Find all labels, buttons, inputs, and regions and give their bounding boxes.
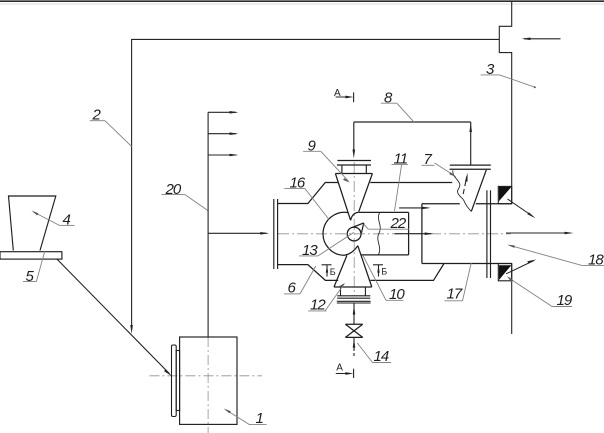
air arrow 1 bbox=[208, 111, 238, 114]
fan volute scroll bbox=[323, 212, 358, 255]
funnel 12 cone bbox=[334, 246, 372, 287]
centerline horizontal motor bbox=[149, 375, 262, 377]
funnel 9 flange bbox=[337, 161, 371, 174]
vertical feed line below funnel 12 with up arrow bbox=[353, 303, 355, 324]
label 22 bbox=[364, 215, 409, 232]
svg-text:17: 17 bbox=[447, 286, 463, 303]
motor 1 body bbox=[180, 337, 237, 424]
inlet arrow to machine bbox=[208, 232, 269, 235]
label 17 bbox=[444, 263, 471, 303]
lower wedge box 19 bbox=[498, 264, 511, 281]
impeller small circle 13 bbox=[347, 227, 361, 241]
volute top spiral arc to outlet duct bbox=[351, 212, 359, 220]
valve 14 bbox=[345, 324, 362, 337]
label 5 bbox=[23, 251, 45, 286]
funnel 7 slanted cone with break line bbox=[471, 170, 486, 212]
box 17 separator bbox=[422, 204, 512, 264]
line 8 right vertical from funnel 7 bbox=[470, 122, 472, 165]
svg-text:16: 16 bbox=[290, 175, 306, 192]
pipe 3 vertical with notch bbox=[499, 1, 511, 334]
air arrow 2 bbox=[208, 132, 238, 135]
outlet flange double lines bbox=[487, 190, 491, 278]
label 19 bbox=[507, 276, 573, 309]
label 1 bbox=[224, 409, 267, 427]
top border line bbox=[0, 0, 604, 2]
motor shaft flange inner bbox=[176, 351, 179, 411]
outlet arrow main bbox=[506, 232, 574, 235]
label 8 bbox=[381, 89, 414, 122]
label 3 bbox=[481, 61, 536, 88]
svg-text:20: 20 bbox=[165, 181, 182, 198]
svg-text:A: A bbox=[336, 362, 343, 373]
label 6 bbox=[284, 266, 316, 296]
line 2 recirculation pipe bbox=[132, 39, 500, 326]
label 16 bbox=[284, 175, 329, 220]
upper wedge box 18 bbox=[498, 186, 511, 203]
impeller teardrop tip 22 bbox=[352, 223, 364, 233]
svg-text:Б: Б bbox=[381, 267, 387, 277]
label 4 bbox=[31, 210, 74, 228]
outlet arrow upper diagonal bbox=[508, 199, 536, 218]
section mark Б left bbox=[322, 265, 336, 277]
line below valve with up arrow bbox=[353, 337, 355, 351]
section mark A top bbox=[334, 88, 354, 102]
feed diagonal from plate to motor bbox=[57, 259, 170, 374]
motor shaft flange outer bbox=[172, 345, 177, 417]
line 8 left vertical down to funnel 9 bbox=[353, 122, 355, 152]
label 12 bbox=[308, 283, 345, 314]
line 20 air distribution vertical bbox=[207, 112, 209, 337]
funnel 12 flange plates bbox=[337, 287, 371, 303]
outlet duct 11 bbox=[359, 212, 409, 255]
arrow from duct to box 17 lower bbox=[395, 232, 434, 235]
funnel 7 flange bbox=[450, 165, 491, 169]
label 7 bbox=[422, 151, 457, 177]
mill left flange bbox=[274, 199, 278, 269]
dashed up arrow inside funnel 7 bbox=[463, 177, 467, 195]
outlet arrow lower diagonal bbox=[506, 259, 536, 273]
svg-text:Б: Б bbox=[330, 267, 336, 277]
upper wedge black triangle bbox=[499, 187, 512, 201]
lower wedge black triangle bbox=[499, 265, 512, 280]
label 2 bbox=[90, 107, 132, 147]
label 20 bbox=[161, 181, 207, 211]
section mark Б right bbox=[373, 265, 387, 277]
line 8 recirculation over mill bbox=[354, 121, 471, 123]
hopper 4 bbox=[9, 196, 56, 251]
centerline horizontal of machine bbox=[278, 233, 511, 235]
plate 5 bbox=[0, 252, 62, 259]
inflow arrow at notch bbox=[522, 38, 561, 41]
label 9 bbox=[303, 138, 350, 183]
label 11 bbox=[392, 151, 409, 211]
arrow from duct to box 17 upper bbox=[399, 207, 431, 210]
svg-text:4: 4 bbox=[63, 212, 71, 229]
mill casing outline part 6/16 bbox=[278, 183, 453, 281]
section mark A bottom bbox=[336, 362, 354, 378]
break wavy line in duct bbox=[378, 213, 380, 255]
centerline vertical motor bbox=[207, 337, 209, 433]
centerline vertical of machine bbox=[353, 162, 355, 296]
label 18 bbox=[507, 245, 604, 269]
air arrow 3 bbox=[208, 154, 238, 157]
label 10 bbox=[363, 255, 406, 303]
label 14 bbox=[357, 343, 391, 365]
label 13 bbox=[299, 232, 354, 258]
arrow down at end of line 2 bbox=[130, 325, 133, 334]
funnel 9 cone bbox=[335, 174, 372, 221]
